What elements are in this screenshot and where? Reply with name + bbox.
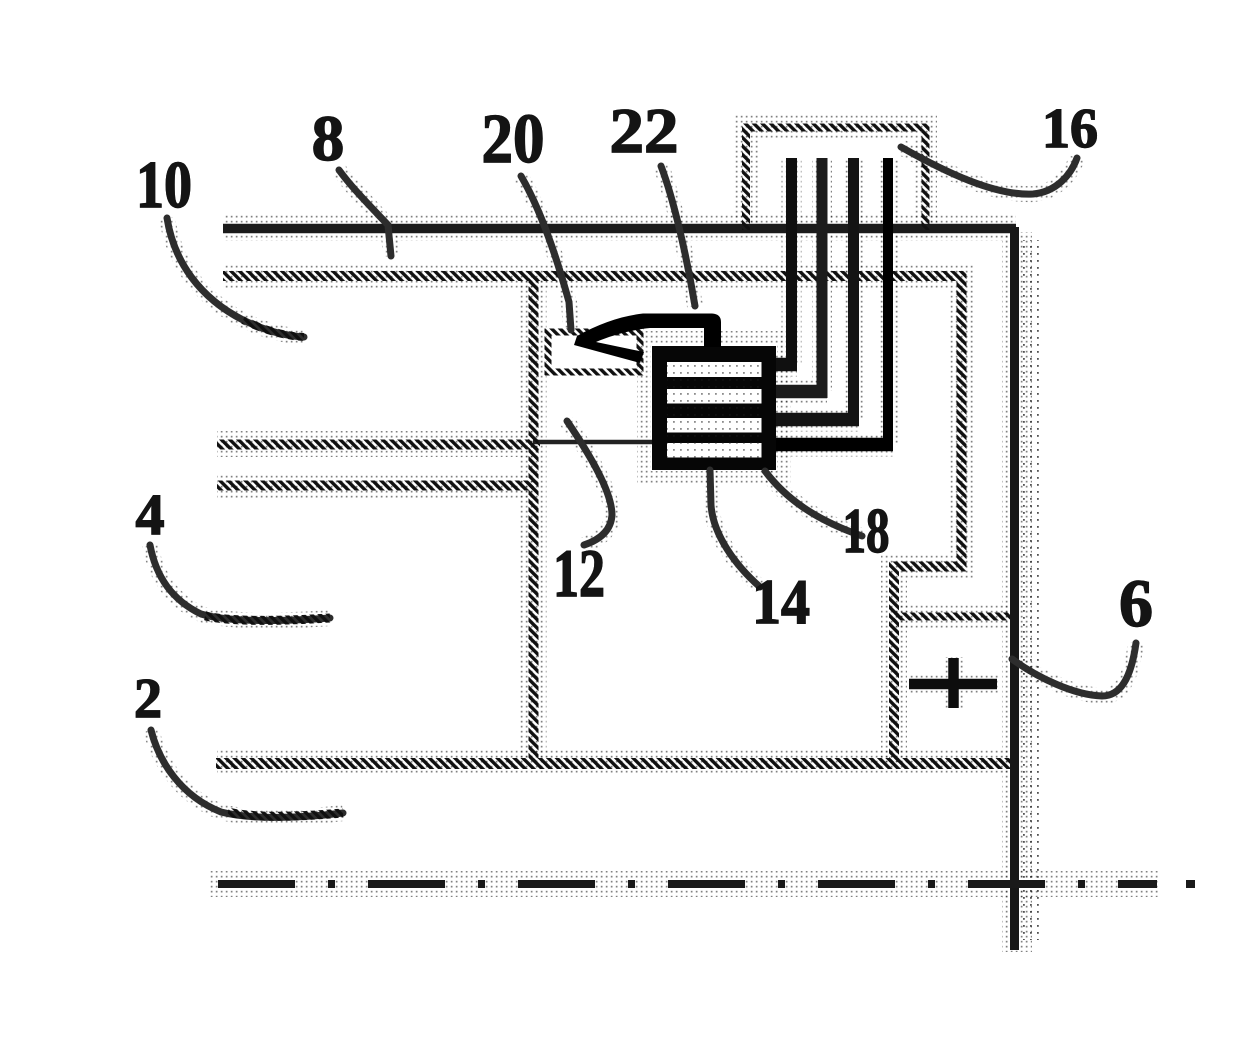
wall: upper cylinder-head line (8): [223, 224, 1016, 234]
wire W2: [776, 158, 827, 398]
light halo band right of big vertical: [1021, 240, 1040, 940]
leader 12: [567, 421, 612, 545]
wall: second line stepping down to chamber: [223, 276, 962, 762]
svg-text:18: 18: [843, 495, 890, 566]
leader 20: [521, 176, 571, 330]
svg-text:14: 14: [752, 566, 810, 637]
leader 6: [1012, 643, 1136, 696]
wall halo 2: [223, 276, 961, 762]
leader 10: [167, 218, 304, 337]
svg-text:16: 16: [1042, 98, 1098, 160]
wall: vertical at x=533: [529, 278, 539, 761]
wall halo C: [217, 749, 1013, 775]
plus mark (glow point): [909, 658, 997, 708]
heater element block (14/18): [652, 346, 776, 470]
box: connector housing top right (16): [746, 128, 926, 231]
leader 4 hatched tail: [205, 616, 330, 620]
label speckle halos: [134, 96, 1153, 730]
wire W1 (leftmost lead): [776, 158, 797, 371]
wall: chamber line h616: [894, 613, 1013, 621]
wall halo h616: [894, 603, 1013, 629]
wire halos: [782, 158, 802, 364]
box halo: [746, 127, 925, 230]
svg-text:4: 4: [136, 482, 165, 547]
svg-text:22: 22: [610, 96, 679, 166]
leader 14: [710, 470, 760, 587]
leader 4: [150, 545, 330, 621]
element halo: [644, 338, 784, 478]
svg-text:12: 12: [553, 535, 605, 611]
svg-text:10: 10: [136, 148, 192, 222]
centerline halo: [210, 871, 1160, 897]
wall halo A: [217, 431, 540, 457]
wall: bottom line C: [216, 758, 1013, 769]
leader 8: [339, 170, 391, 256]
wire W4 (rightmost lead): [776, 158, 893, 451]
leader 22: [661, 166, 695, 306]
leader 16: [901, 147, 1077, 194]
leader 10 hatched tail: [243, 320, 304, 337]
plus halo: [908, 657, 999, 709]
wall: line A (middle left): [217, 440, 540, 450]
wire W3: [776, 158, 859, 426]
big vertical bore line (6): [1010, 227, 1019, 950]
svg-text:8: 8: [312, 103, 345, 175]
wall halo v533: [521, 278, 547, 761]
leader halos: [167, 218, 304, 337]
halo group: faint fringe under every main stroke: [150, 127, 1160, 952]
leader 2 hatched tail: [228, 812, 343, 816]
leader 18: [765, 471, 862, 536]
small electrode frame (20): [548, 332, 640, 372]
thick black electrode swoosh: [574, 314, 721, 364]
svg-text:2: 2: [134, 668, 162, 730]
svg-text:6: 6: [1119, 565, 1153, 641]
wall halo 1: [223, 215, 1016, 241]
wall: line B: [217, 481, 534, 491]
big vertical halo: [1002, 232, 1032, 952]
wall halo B: [217, 473, 534, 499]
svg-text:20: 20: [482, 101, 545, 178]
leader 2: [151, 730, 343, 817]
centerline end dot: [1186, 880, 1195, 888]
dash-dot centerline: [218, 880, 1157, 888]
wall: thin dark continuation of line A to heater: [533, 440, 656, 445]
